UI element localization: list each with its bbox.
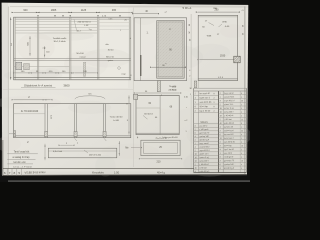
bar left vertical dim [44,144,46,160]
svg-text:8: 8 [213,106,214,108]
svg-text:oszlop 140: oszlop 140 [224,164,233,166]
right view outline [198,15,237,80]
svg-text:lap 2 hn 60: lap 2 hn 60 [200,110,211,112]
svg-text:alatet 13 n: alatet 13 n [224,103,233,106]
svg-text:2: 2 [220,142,221,144]
vertical fold crease [132,8,134,168]
middle panel view outline [134,18,187,81]
svg-text:4: 4 [220,168,221,170]
vertical posts [14,17,16,79]
frame line bottom [3,174,247,177]
svg-text:2: 2 [220,145,221,147]
svg-text:50×4 lap: 50×4 lap [224,144,232,147]
svg-text:32: 32 [220,115,222,117]
svg-text:vas 40×4 db: vas 40×4 db [224,140,235,143]
svg-text:465: 465 [112,9,117,12]
joint dots above top edge [37,15,38,16]
svg-text:t 140 gerle: t 140 gerle [199,128,208,131]
bottom edge double line [14,77,131,79]
svg-text:4: 4 [195,136,196,138]
svg-text:30×40: 30×40 [108,49,115,52]
svg-text:4: 4 [220,100,221,102]
svg-text:4,8×4 tök: 4,8×4 tök [53,150,63,153]
top dimension line [14,11,131,13]
svg-text:140: 140 [46,52,49,54]
mid rail double line [14,58,131,60]
svg-text:2: 2 [241,168,242,170]
dim line across hatch panel [152,66,184,68]
svg-text:4: 4 [195,171,196,173]
svg-text:36×1,5 tábla: 36×1,5 tábla [53,40,66,43]
svg-text:12: 12 [241,119,243,121]
svg-text:2: 2 [241,115,242,117]
lower-middle view rect [136,95,179,134]
svg-text:5011 k: 5011 k [200,121,208,124]
svg-text:210: 210 [157,160,162,163]
frame line right [244,6,246,174]
svg-text:km szel 40: km szel 40 [224,134,233,136]
svg-text:a vastag 4×4 lap: a vastag 4×4 lap [13,156,31,159]
small hatched post below-left of right view [194,81,197,88]
bar part inner line [48,150,117,152]
svg-text:heg. varrat: heg. varrat [224,92,234,95]
svg-text:40×40 hg 4: 40×40 hg 4 [224,167,235,170]
svg-text:4: 4 [241,112,242,114]
svg-text:16: 16 [195,157,197,159]
svg-text:8: 8 [195,126,196,128]
svg-text:L 45°: L 45° [84,25,89,27]
svg-text:40×40 hg 4: 40×40 hg 4 [199,138,210,141]
post foot hatches [45,131,48,136]
parts table frame [193,88,195,172]
svg-text:3600: 3600 [63,83,70,87]
scan background (black border) [0,0,250,182]
svg-text:2: 2 [213,102,214,104]
svg-text:2: 2 [220,104,221,106]
svg-text:cso 25×2: cso 25×2 [224,152,232,155]
plate part outer [141,140,180,155]
svg-text:vas 40×4 db: vas 40×4 db [200,101,213,104]
svg-text:2: 2 [220,93,221,95]
svg-text:4: 4 [220,127,221,129]
svg-text:W36: W36 [222,22,227,24]
svg-text:40: 40 [220,123,222,125]
svg-text:deszka 25: deszka 25 [224,126,233,128]
svg-text:75×75×2 W: 75×75×2 W [155,137,167,140]
right view top double [198,16,237,18]
margin vertical line left of right view [190,14,192,88]
table rows right group [219,94,247,96]
svg-text:8: 8 [241,123,242,125]
svg-text:12: 12 [220,138,222,140]
svg-text:4-40: 4-40 [225,26,230,28]
top dim line right view [198,11,238,13]
svg-text:2: 2 [220,119,221,121]
svg-text:Béce 50: Béce 50 [106,57,114,59]
svg-text:2: 2 [189,76,190,78]
brace dimension over posts [75,96,105,99]
svg-text:anya M12 d: anya M12 d [199,150,209,152]
svg-text:32: 32 [195,161,197,163]
table rows left group lower [194,123,219,125]
hatched post below panel [157,81,160,92]
svg-text:1: 1 [241,138,242,140]
svg-text:gerenda 70: gerenda 70 [224,160,234,162]
svg-text:heg. varrat: heg. varrat [199,142,209,145]
small dividers in title [6,168,8,175]
svg-text:6: 6 [220,134,221,136]
svg-text:1865: 1865 [51,9,57,12]
lower-middle view top dims [136,92,179,94]
horizontal crease left [3,89,133,91]
svg-text:szeg 100 e: szeg 100 e [224,111,234,113]
hatched panel [157,21,185,79]
svg-text:betet vas 2: betet vas 2 [200,96,211,99]
svg-text:4: 4 [195,147,196,149]
svg-text:Tartó! csap kiüt: Tartó! csap kiüt [14,151,30,154]
svg-text:4 2 4: 4 2 4 [218,77,224,79]
svg-text:8: 8 [220,157,221,159]
svg-text:56 J: 56 J [77,31,81,33]
svg-text:anya M12 d: anya M12 d [224,100,234,102]
svg-text:V/188 34,6 kmüv: V/188 34,6 kmüv [24,170,46,175]
svg-text:W38: W38 [207,36,212,38]
left stile dark segment [140,55,142,76]
outer frame line left-bottom [2,140,4,176]
svg-text:6: 6 [220,164,221,166]
svg-text:1: 1 [185,131,186,133]
svg-text:L=140: L=140 [113,120,120,122]
left vertical dim lower-middle [128,95,130,134]
svg-text:6: 6 [195,133,196,135]
bar part outline [48,148,117,158]
svg-text:6: 6 [4,171,6,175]
scan shadow bottom edge [2,172,247,176]
svg-text:1930: 1930 [220,55,226,58]
svg-text:lemez 3 vg: lemez 3 vg [199,157,208,159]
svg-text:1: 1 [220,153,221,155]
scan shadow left edge [2,3,9,175]
svg-text:2: 2 [241,108,242,110]
svg-text:U 80 tart: U 80 tart [199,166,207,169]
extra hatched mini post in bottom band [83,62,85,76]
svg-text:két old. erst: két old. erst [14,161,26,164]
svg-text:pallo 50 km: pallo 50 km [224,123,234,125]
svg-text:L 45×45×4: L 45×45×4 [199,163,209,166]
svg-text:40×4 g: 40×4 g [157,170,166,174]
horizontal slat lines [16,21,98,23]
svg-text:t 140 gerle: t 140 gerle [224,155,233,158]
section view top dim line [14,99,51,101]
inner vertical dim post-to-post [29,36,31,56]
svg-text:2: 2 [195,140,196,142]
svg-text:1: 1 [195,143,196,145]
svg-text:2: 2 [220,130,221,132]
leader arrows in right view [209,23,215,26]
plate part inner [144,142,178,153]
svg-text:Let sz. + 1 P meret: Let sz. + 1 P meret [13,166,32,169]
svg-text:1:50: 1:50 [114,170,120,174]
svg-text:50×4 lap: 50×4 lap [200,105,209,108]
scan shadow top edge [120,5,248,8]
svg-text:lap 2 hn 60: lap 2 hn 60 [224,149,234,151]
svg-text:2: 2 [241,142,242,144]
svg-text:gerenda 70: gerenda 70 [199,132,209,134]
svg-text:16: 16 [195,154,197,156]
svg-text:40: 40 [241,100,243,102]
svg-text:betet vas 2: betet vas 2 [224,137,234,140]
svg-text:1: 1 [241,127,242,129]
inner vertical divider [159,95,161,134]
svg-text:2: 2 [241,104,242,106]
right view bottom double [198,78,237,80]
left margin arrow marks [9,133,13,135]
bottom interior dimension line [15,72,70,74]
svg-text:5 R²+1: 5 R²+1 [182,6,191,10]
plate bottom dim [141,158,180,160]
svg-text:2: 2 [213,111,214,113]
slab bottom double line [14,135,131,137]
section view slab outline [14,104,131,138]
ticks below slab [75,138,77,141]
svg-text:Kecskés: Kecskés [92,171,104,175]
svg-text:alatet 13 n: alatet 13 n [199,152,208,155]
svg-text:40: 40 [195,168,197,170]
svg-text:Oldalnézet A–A szerint: Oldalnézet A–A szerint [24,84,52,88]
svg-text:6: 6 [241,93,242,95]
svg-text:16: 16 [241,160,243,162]
svg-text:4x 70×140×1940: 4x 70×140×1940 [21,110,39,113]
svg-text:8: 8 [213,93,214,95]
svg-text:(50×4×1,50): (50×4×1,50) [89,153,101,156]
svg-text:4: 4 [241,153,242,155]
svg-text:2: 2 [195,164,196,166]
left stile inner line [139,18,141,81]
svg-text:csavar M12: csavar M12 [199,146,209,148]
vertical dim middle panel [44,46,46,58]
inner frame line left [7,7,9,176]
lower rail line [14,66,70,68]
svg-text:cso 25×2: cso 25×2 [199,124,207,127]
dim between parts [118,141,120,156]
svg-text:2: 2 [213,98,214,100]
bottom double [136,132,179,134]
left vertical dimension [10,17,12,80]
top dim line middle view [134,13,157,15]
svg-text:7: 7 [9,171,11,175]
svg-text:csavar M12: csavar M12 [224,96,234,98]
svg-text:4: 4 [189,70,190,72]
svg-text:16: 16 [220,108,222,110]
svg-text:900: 900 [23,9,28,12]
svg-text:Tartóláb mellé: Tartóláb mellé [53,37,67,40]
inner faint horizontal [136,107,160,109]
svg-text:4: 4 [241,157,242,159]
svg-text:L 45×45×4: L 45×45×4 [224,114,234,117]
paper mottling [56,26,108,36]
bottom-left hatched detail blocks [16,62,22,70]
svg-text:U 80 tart: U 80 tart [224,118,232,121]
svg-text:4 db: 4 db [184,97,188,99]
interior dim line 1930 [199,59,236,61]
hatched block right end [234,56,240,63]
svg-text:2: 2 [195,150,196,152]
paper sheet [2,3,249,176]
svg-text:me: me [213,7,217,10]
frame line top (faint) [10,5,244,8]
svg-text:Tüske 40×40: Tüske 40×40 [110,116,123,119]
svg-text:6: 6 [241,134,242,136]
slab posts [45,104,47,138]
svg-text:csavar: csavar [79,56,85,59]
svg-text:e 2: e 2 [185,120,188,122]
svg-text:8: 8 [14,171,16,175]
top edge double line [14,18,131,20]
svg-text:1: 1 [10,43,12,47]
svg-text:2: 2 [241,97,242,99]
svg-text:2: 2 [195,129,196,131]
svg-text:pallo 50 km: pallo 50 km [199,171,209,173]
svg-text:30×40×2: 30×40×2 [144,113,153,116]
svg-text:szeg 100 e: szeg 100 e [199,160,209,162]
svg-text:2: 2 [220,160,221,162]
hatched corner top-left [134,94,138,99]
slab inner line under text [14,113,45,115]
title block top line [3,167,194,169]
svg-text:km szel 40: km szel 40 [200,93,211,95]
svg-text:16: 16 [241,145,243,147]
svg-text:2: 2 [241,149,242,151]
svg-text:oszlop 140: oszlop 140 [199,136,208,138]
svg-text:gerinc: gerinc [108,60,113,62]
svg-text:4: 4 [241,164,242,166]
svg-text:2db 50×50×4: 2db 50×50×4 [78,21,92,24]
svg-text:lemez 3 vg: lemez 3 vg [224,108,233,110]
svg-text:5: 5 [18,171,20,175]
svg-text:32: 32 [241,130,243,132]
bar top dim ticks [61,144,73,146]
svg-text:4: 4 [220,149,221,151]
dim ticks right of centre [75,72,97,74]
svg-text:150×4 szal: 150×4 szal [224,129,234,132]
paper bright spot upper-left [8,8,128,88]
bottom scanner light strip [8,180,250,182]
table rows left group upper [194,94,219,96]
svg-text:16: 16 [220,112,222,114]
svg-text:50×100: 50×100 [76,52,84,55]
svg-text:1125: 1125 [81,9,87,12]
svg-text:k 45: k 45 [109,19,113,21]
svg-text:1: 1 [220,97,221,99]
top-left elevation view outline [14,17,131,80]
